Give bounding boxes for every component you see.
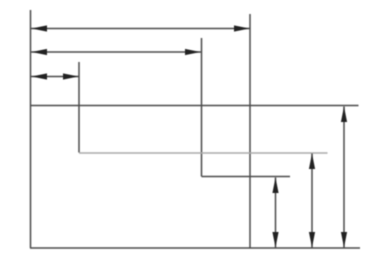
vertical dimension VD3 bbox=[343, 107, 345, 248]
dimension line D2 bbox=[31, 51, 201, 53]
extension line step2 bbox=[201, 38, 203, 177]
vertical dimension VD2 bbox=[311, 154, 313, 248]
profile middle line grey bbox=[79, 152, 328, 154]
dimension line D1 bbox=[31, 28, 250, 30]
extension line left edge bbox=[30, 10, 32, 248]
vertical dimension VD1 bbox=[275, 178, 277, 248]
profile bottom line bbox=[30, 247, 360, 249]
arrowheads VD3 bbox=[341, 107, 347, 123]
extension line step1 bbox=[78, 62, 80, 153]
arrowheads D3 bbox=[32, 73, 48, 79]
arrowheads VD2 bbox=[309, 154, 315, 170]
arrowheads D1 bbox=[32, 25, 48, 31]
profile lower line bbox=[202, 176, 291, 178]
dimension line D3 bbox=[31, 76, 79, 78]
arrowheads D2 bbox=[32, 49, 48, 55]
arrowheads VD1 bbox=[272, 178, 278, 194]
extension line right bbox=[249, 14, 251, 248]
profile top line bbox=[30, 105, 359, 107]
